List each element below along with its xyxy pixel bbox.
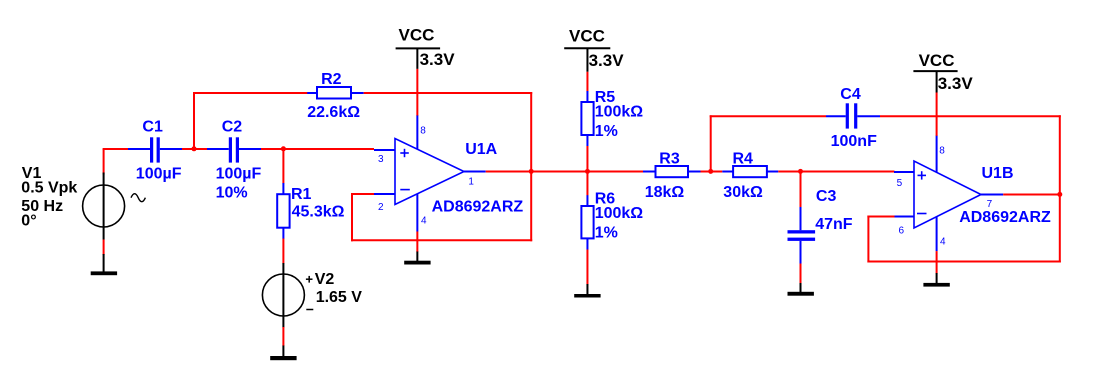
capacitor C1 <box>128 137 182 162</box>
svg-text:100nF: 100nF <box>831 133 877 150</box>
wire V2 to ground <box>282 327 284 346</box>
svg-text:18kΩ: 18kΩ <box>645 184 685 201</box>
VCC symbol 3 <box>913 71 957 92</box>
capacitor C3 <box>788 207 816 264</box>
wire R3 to R4 <box>701 171 723 173</box>
resistor R2 <box>307 87 364 99</box>
svg-text:100µF: 100µF <box>136 166 182 183</box>
pin 6 lead <box>894 216 914 218</box>
wire R2 right to feedback vertical <box>364 92 533 94</box>
svg-text:0°: 0° <box>21 212 36 229</box>
svg-text:C3: C3 <box>816 188 837 205</box>
svg-text:C2: C2 <box>222 119 243 136</box>
resistor R4 <box>722 166 778 177</box>
pin 5 lead <box>894 171 914 173</box>
svg-text:2: 2 <box>378 202 384 213</box>
svg-text:30kΩ: 30kΩ <box>723 184 763 201</box>
wire to R2 left <box>193 92 308 94</box>
svg-text:7: 7 <box>987 199 993 210</box>
wire C4 branch up <box>710 115 712 172</box>
capacitor C4 <box>826 103 880 128</box>
svg-text:U1B: U1B <box>982 165 1014 182</box>
wire C2 to op-amp +input <box>261 148 374 150</box>
svg-text:R3: R3 <box>659 150 680 167</box>
capacitor C2 <box>207 137 261 162</box>
ground under U1A <box>404 252 430 265</box>
svg-text:1: 1 <box>468 176 474 187</box>
wire C1 to C2 <box>182 148 207 150</box>
source V2 <box>262 263 313 328</box>
wire feedback left vertical <box>351 193 353 241</box>
svg-text:R2: R2 <box>321 71 342 88</box>
pin 8 lead U1B <box>936 135 938 172</box>
wire R5 to R6 <box>586 146 588 196</box>
svg-text:3: 3 <box>378 154 384 165</box>
node junction dot U1B output <box>1057 192 1062 197</box>
svg-text:AD8692ARZ: AD8692ARZ <box>432 199 524 216</box>
wire U1B feedback bottom <box>867 261 1060 263</box>
svg-text:6: 6 <box>899 225 905 236</box>
pin 4 lead U1A <box>416 194 418 232</box>
svg-text:1%: 1% <box>595 123 618 140</box>
wire V1 top vertical <box>103 149 105 175</box>
VCC symbol 1 <box>396 48 441 69</box>
svg-text:U1A: U1A <box>465 141 497 158</box>
svg-text:10%: 10% <box>216 185 248 202</box>
svg-text:1%: 1% <box>595 225 618 242</box>
wire R6 to ground <box>586 250 588 285</box>
pin 8 lead U1A <box>416 115 418 150</box>
op-amp U1A <box>395 139 464 205</box>
ground under R6 <box>574 284 600 298</box>
pin 3 lead <box>374 149 395 151</box>
svg-text:R4: R4 <box>733 150 754 167</box>
svg-text:3.3V: 3.3V <box>589 51 625 70</box>
svg-text:4: 4 <box>940 236 946 247</box>
resistor R5 <box>581 91 593 146</box>
wire R1 branch down <box>282 149 284 184</box>
svg-text:AD8692ARZ: AD8692ARZ <box>959 209 1051 226</box>
op-amp U1B <box>914 161 981 228</box>
svg-text:3.3V: 3.3V <box>938 74 974 93</box>
svg-text:22.6kΩ: 22.6kΩ <box>307 104 360 121</box>
ground under V1 <box>91 254 117 275</box>
pin 1 lead U1A output <box>464 171 486 173</box>
ground under U1B <box>923 273 949 287</box>
svg-text:R1: R1 <box>291 186 312 203</box>
ground under C3 <box>788 283 814 296</box>
wire V1 to C1 <box>103 148 129 150</box>
wire U1A pin 4 to ground <box>416 232 418 253</box>
wire R4 to U1B <box>778 171 894 173</box>
wire U1A output <box>486 171 643 173</box>
svg-text:0.5 Vpk: 0.5 Vpk <box>21 179 77 196</box>
svg-text:47nF: 47nF <box>815 216 853 233</box>
resistor R1 <box>277 183 289 239</box>
wire R2 branch up <box>193 92 195 150</box>
node junction dot R4-C3 <box>798 169 803 174</box>
svg-text:5: 5 <box>897 178 903 189</box>
resistor R3 <box>643 166 701 177</box>
wire R1 to V2 <box>282 239 284 264</box>
wire U1B output <box>1003 194 1060 196</box>
node junction dot C2-R1-U1A <box>281 146 286 151</box>
wire to -input <box>351 193 375 195</box>
ground under V2 <box>270 346 296 361</box>
svg-text:C1: C1 <box>142 119 163 136</box>
wire C3 branch down <box>800 172 802 208</box>
wire VCC2 to R5 <box>586 72 588 92</box>
svg-text:VCC: VCC <box>919 51 955 70</box>
wire feedback bottom <box>351 239 532 241</box>
wire to C4 left <box>710 115 826 117</box>
svg-text:C4: C4 <box>840 86 861 103</box>
pin 7 lead U1B output <box>981 194 1003 196</box>
svg-text:8: 8 <box>420 125 426 136</box>
svg-text:8: 8 <box>939 145 945 156</box>
wire U1B feedback left vertical <box>867 216 869 263</box>
wire V1 to ground <box>103 240 105 256</box>
svg-text:V2: V2 <box>315 271 335 288</box>
wire feedback vertical <box>530 92 532 241</box>
wire VCC1 to pin 8 <box>416 69 418 116</box>
node junction dot C1-C2-R2 <box>192 146 197 151</box>
wire U1B pin 4 to ground <box>936 251 938 273</box>
svg-text:VCC: VCC <box>399 26 435 45</box>
node junction dot R5-R6 <box>585 169 590 174</box>
svg-text:VCC: VCC <box>569 27 605 46</box>
svg-text:100µF: 100µF <box>216 166 262 183</box>
wire C3 to ground <box>800 264 802 284</box>
svg-text:100kΩ: 100kΩ <box>595 103 644 120</box>
svg-text:1.65 V: 1.65 V <box>316 289 363 306</box>
wire U1B feedback to -input <box>867 216 894 218</box>
wire right vertical <box>1059 115 1061 262</box>
source V1 <box>83 173 146 240</box>
node junction dot R3-R4-C4 <box>708 169 713 174</box>
wire VCC3 to pin 8 <box>936 93 938 136</box>
svg-text:4: 4 <box>421 216 427 227</box>
svg-text:100kΩ: 100kΩ <box>595 205 644 222</box>
resistor R6 <box>581 195 593 249</box>
node junction dot output-feedback <box>529 169 534 174</box>
pin 4 lead U1B <box>936 217 938 251</box>
svg-text:45.3kΩ: 45.3kΩ <box>292 204 345 221</box>
pin 2 lead <box>374 193 395 195</box>
wire C4 right to output vertical <box>880 115 1061 117</box>
VCC symbol 2 <box>564 48 610 72</box>
svg-text:3.3V: 3.3V <box>420 50 456 69</box>
